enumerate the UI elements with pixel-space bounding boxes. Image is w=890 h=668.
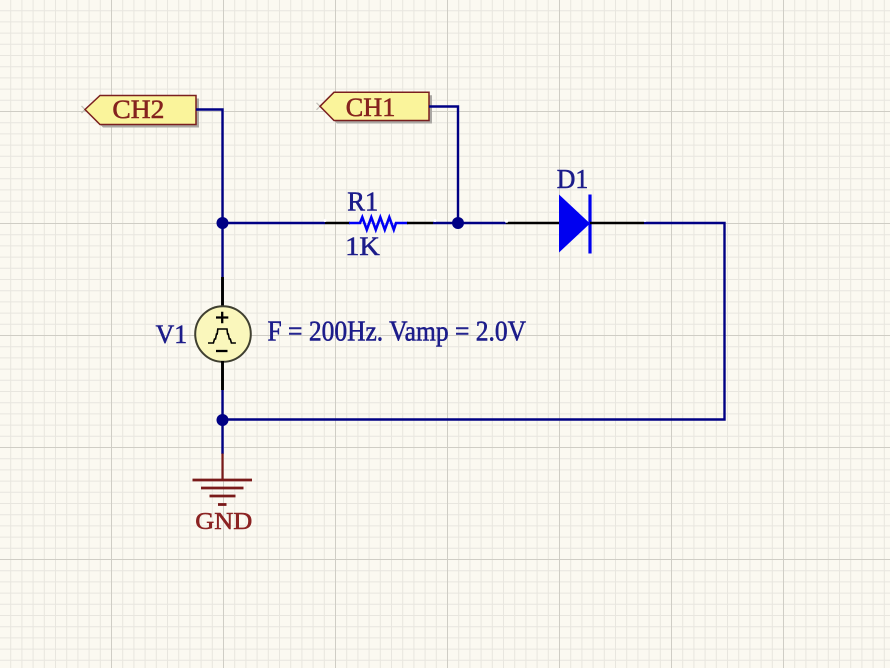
resistor R1 pin 2 — [407, 222, 433, 225]
wire node A down to V1 — [221, 223, 223, 277]
wire D1 to right corner and down to bottom wire — [223, 223, 725, 420]
net flag CH2 — [85, 96, 196, 125]
voltage source V1 pulse waveform — [208, 329, 236, 343]
resistor R1 pin 1 — [325, 222, 350, 225]
svg-text:R1: R1 — [347, 187, 378, 217]
wire CH2 to node — [196, 110, 223, 224]
pin end markers — [324, 219, 647, 223]
svg-text:1K: 1K — [345, 232, 380, 261]
diode D1 pin 2 (cathode) — [590, 222, 644, 225]
voltage source V1 pin 1 — [221, 277, 224, 307]
wire R1 to node B — [433, 222, 506, 224]
wire V1 to node C — [221, 390, 223, 420]
voltage source V1 plus sign — [216, 312, 228, 323]
voltage source V1 pin 2 — [221, 361, 224, 390]
junction node C — [217, 414, 229, 426]
net flag CH2 tip cross — [82, 106, 89, 113]
ground symbol bar 3 — [210, 495, 236, 498]
wire node A to R1 — [223, 222, 326, 224]
junction node A — [217, 217, 229, 229]
net flag CH1 tip cross — [317, 103, 324, 110]
ground symbol bar 4 — [218, 503, 227, 506]
svg-text:D1: D1 — [557, 164, 589, 194]
ground symbol stem — [221, 454, 223, 480]
voltage source V1 minus sign — [216, 350, 228, 352]
svg-text:CH2: CH2 — [112, 95, 164, 124]
ground symbol bar 2 — [201, 487, 244, 490]
ground symbol bar 1 — [193, 479, 253, 482]
diode D1 pin 1 (anode) — [506, 222, 560, 225]
net flag CH1 — [320, 92, 429, 120]
wire node C to ground — [221, 420, 223, 454]
svg-text:GND: GND — [195, 509, 252, 535]
diode D1 cathode bar — [588, 195, 591, 254]
net flag CH2 shadow — [88, 99, 199, 128]
net flag CH1 shadow — [323, 95, 432, 123]
junction node B — [452, 217, 464, 229]
diode D1 triangle — [559, 195, 590, 253]
svg-text:F = 200Hz. Vamp = 2.0V: F = 200Hz. Vamp = 2.0V — [268, 317, 527, 348]
svg-text:CH1: CH1 — [346, 93, 396, 122]
svg-text:V1: V1 — [156, 320, 188, 349]
resistor R1 body — [349, 217, 408, 229]
wire CH1 to node — [429, 107, 458, 224]
voltage source V1 body circle — [195, 306, 251, 362]
